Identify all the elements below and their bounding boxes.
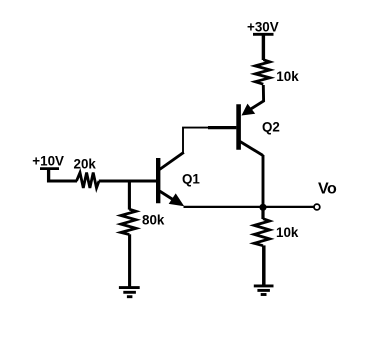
wire +10V to R2 [47,180,77,183]
svg-text:80k: 80k [142,212,165,227]
transistor Q1 emitter arrow (NPN) [169,193,185,206]
transistor Q2 collector lead [240,142,263,156]
wire +10V stub [47,169,50,183]
svg-text:Q2: Q2 [262,120,280,135]
transistor Q2 emitter arrow (PNP) [242,104,256,116]
svg-text:Q1: Q1 [182,172,200,187]
ground (right) [254,286,274,295]
transistor Q1 emitter lead [160,191,177,202]
svg-text:10k: 10k [276,225,299,240]
node junction dot [259,204,266,211]
wire R1 to Q2 emitter [250,85,264,110]
ground (left) [119,288,140,297]
transistor Q2 base lead [208,126,236,129]
resistor R1 10k (top) [255,60,270,84]
resistor R4 10k (bottom) [254,219,269,246]
transistor Q2 body bar [236,104,241,149]
wire emitter to output [184,206,314,208]
svg-text:+30V: +30V [247,19,279,34]
transistor Q1 body bar [156,158,160,203]
svg-text:20k: 20k [74,156,97,171]
transistor Q1 collector lead [160,152,184,169]
node T-junction base/R3 [128,181,131,210]
resistor R2 20k [77,173,100,188]
terminal Vo circle [314,204,320,210]
supply +30V bar [253,33,274,36]
resistor R3 80k [121,209,136,234]
svg-text:Vo: Vo [318,181,337,198]
wire R3 to ground [128,234,131,287]
svg-text:+10V: +10V [32,154,64,169]
wire R2 to Q1 base [99,179,157,182]
supply +10V bar [40,167,59,170]
wire R4 to ground [262,245,266,286]
svg-text:10k: 10k [276,69,299,84]
wire node to R4 [261,207,264,219]
wire +30V to R1 [262,34,265,60]
wire Q2 collector to output node [262,155,265,207]
wire Q1 collector to Q2 base [183,128,210,153]
